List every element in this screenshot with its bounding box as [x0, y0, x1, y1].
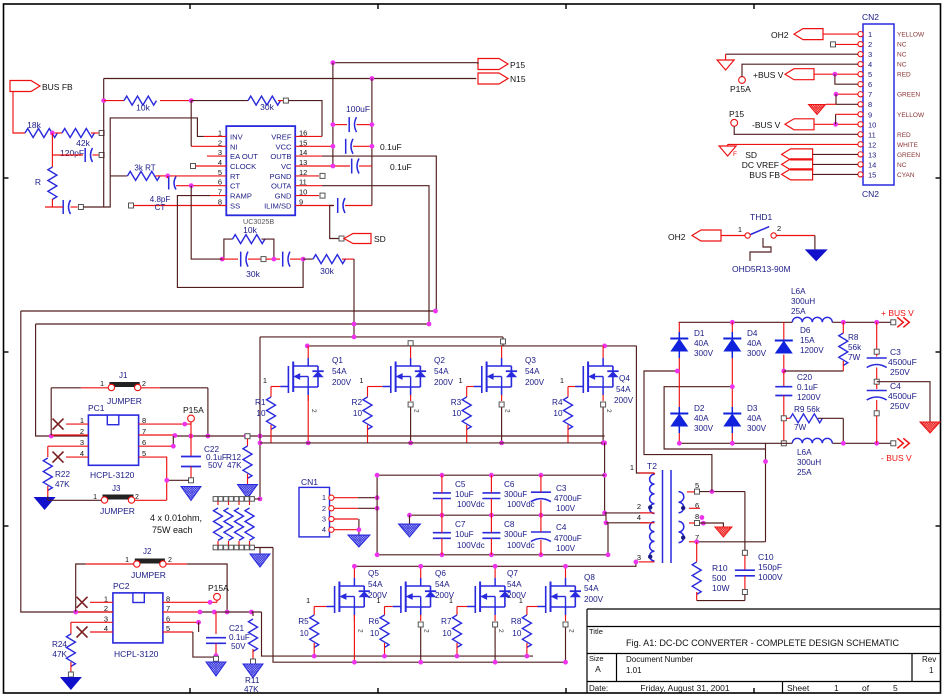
svg-text:54A: 54A — [525, 367, 540, 376]
svg-text:54A: 54A — [616, 385, 631, 394]
svg-text:47K: 47K — [55, 480, 70, 489]
svg-text:Fig. A1: DC-DC CONVERTER - COM: Fig. A1: DC-DC CONVERTER - COMPLETE DESI… — [626, 638, 899, 648]
svg-text:+ BUS V: + BUS V — [881, 308, 914, 318]
svg-text:R10: R10 — [712, 563, 728, 573]
svg-text:D2: D2 — [694, 404, 705, 413]
svg-text:CN2: CN2 — [862, 12, 879, 22]
svg-text:C8: C8 — [504, 520, 515, 529]
svg-text:OHD5R13-90M: OHD5R13-90M — [732, 264, 791, 274]
svg-text:2: 2 — [142, 381, 146, 388]
svg-text:1: 1 — [125, 557, 129, 564]
svg-text:10uF: 10uF — [455, 530, 474, 539]
svg-text:Q4: Q4 — [619, 374, 630, 383]
svg-text:2: 2 — [310, 409, 317, 413]
svg-text:NC: NC — [897, 42, 907, 49]
svg-text:300V: 300V — [747, 349, 767, 358]
svg-text:42k: 42k — [76, 138, 90, 148]
svg-text:2: 2 — [413, 409, 420, 413]
svg-text:R8: R8 — [511, 617, 522, 626]
svg-text:12: 12 — [868, 140, 876, 149]
svg-text:3: 3 — [322, 515, 326, 524]
svg-text:1: 1 — [868, 30, 872, 39]
svg-text:D3: D3 — [747, 404, 758, 413]
svg-text:Q2: Q2 — [434, 356, 445, 365]
svg-text:4700uF: 4700uF — [554, 534, 582, 543]
svg-text:150pF: 150pF — [758, 562, 782, 572]
svg-text:F: F — [733, 151, 737, 158]
svg-text:1: 1 — [322, 493, 326, 502]
svg-text:54A: 54A — [434, 367, 449, 376]
svg-text:P15A: P15A — [183, 405, 204, 415]
svg-text:SD: SD — [374, 234, 386, 244]
svg-text:200V: 200V — [614, 396, 634, 405]
svg-text:0.1uF: 0.1uF — [380, 142, 402, 152]
svg-text:1: 1 — [100, 381, 104, 388]
svg-text:2: 2 — [777, 224, 781, 233]
svg-text:T2: T2 — [647, 461, 657, 471]
svg-text:10W: 10W — [712, 583, 729, 593]
svg-text:R9 56k: R9 56k — [794, 405, 821, 414]
svg-text:R22: R22 — [55, 470, 70, 479]
svg-text:56k: 56k — [848, 343, 862, 352]
svg-text:R8: R8 — [848, 333, 859, 342]
svg-text:Q7: Q7 — [507, 569, 518, 578]
svg-text:HCPL-3120: HCPL-3120 — [90, 470, 135, 480]
svg-text:C21: C21 — [229, 624, 244, 633]
svg-text:Title: Title — [589, 627, 603, 636]
svg-text:YELLOW: YELLOW — [897, 112, 925, 119]
svg-text:300uF: 300uF — [504, 530, 527, 539]
svg-text:0.1uF: 0.1uF — [797, 383, 818, 392]
svg-text:EA OUT: EA OUT — [230, 152, 258, 161]
svg-text:100uF: 100uF — [346, 104, 370, 114]
svg-text:2: 2 — [504, 409, 511, 413]
svg-text:CN1: CN1 — [301, 477, 318, 487]
svg-text:10: 10 — [256, 409, 266, 418]
svg-text:40A: 40A — [694, 339, 709, 348]
svg-text:100Vdc: 100Vdc — [507, 500, 535, 509]
svg-text:DC VREF: DC VREF — [742, 160, 779, 170]
svg-text:1: 1 — [834, 683, 839, 693]
svg-text:2: 2 — [497, 629, 504, 633]
svg-text:1: 1 — [459, 376, 463, 385]
svg-text:- BUS V: - BUS V — [881, 453, 912, 463]
svg-text:250V: 250V — [890, 401, 910, 411]
svg-text:200V: 200V — [434, 378, 454, 387]
svg-text:OH2: OH2 — [771, 30, 789, 40]
svg-text:J1: J1 — [119, 371, 128, 380]
svg-text:10: 10 — [300, 629, 310, 638]
svg-text:7W: 7W — [848, 353, 861, 362]
svg-text:10uF: 10uF — [455, 490, 474, 499]
svg-text:30k: 30k — [320, 266, 334, 276]
svg-text:R24: R24 — [52, 640, 67, 649]
svg-text:OUTA: OUTA — [271, 182, 292, 191]
svg-text:R11: R11 — [245, 676, 260, 685]
svg-text:GND: GND — [275, 192, 292, 201]
svg-text:CYAN: CYAN — [897, 172, 915, 179]
svg-text:JUMPER: JUMPER — [131, 570, 166, 580]
svg-text:Document Number: Document Number — [626, 655, 693, 664]
svg-text:Sheet: Sheet — [787, 683, 810, 693]
svg-text:CT: CT — [230, 182, 240, 191]
svg-text:CT: CT — [155, 203, 166, 212]
svg-text:PC2: PC2 — [113, 581, 130, 591]
svg-text:C4: C4 — [556, 523, 567, 532]
svg-text:300V: 300V — [747, 424, 767, 433]
svg-text:47K: 47K — [52, 650, 67, 659]
svg-text:1: 1 — [560, 376, 564, 385]
svg-text:1.01: 1.01 — [626, 666, 642, 675]
svg-text:Friday, August 31, 2001: Friday, August 31, 2001 — [640, 683, 729, 693]
svg-text:40A: 40A — [747, 339, 762, 348]
svg-text:54A: 54A — [332, 367, 347, 376]
svg-text:1000V: 1000V — [758, 572, 783, 582]
svg-text:25A: 25A — [791, 307, 806, 316]
svg-text:9: 9 — [868, 110, 872, 119]
svg-text:40A: 40A — [694, 414, 709, 423]
svg-text:C6: C6 — [504, 480, 515, 489]
svg-text:C3: C3 — [890, 347, 901, 357]
svg-text:300uF: 300uF — [504, 490, 527, 499]
svg-text:C7: C7 — [455, 520, 466, 529]
svg-text:RED: RED — [897, 132, 911, 139]
svg-text:RAMP: RAMP — [230, 192, 252, 201]
svg-text:4500uF: 4500uF — [888, 391, 917, 401]
svg-text:10: 10 — [353, 409, 363, 418]
svg-text:4: 4 — [637, 513, 641, 522]
svg-text:1: 1 — [263, 376, 267, 385]
svg-text:6: 6 — [868, 80, 872, 89]
svg-text:GREEN: GREEN — [897, 152, 920, 159]
svg-text:C4: C4 — [890, 381, 901, 391]
svg-text:0.1uF: 0.1uF — [229, 633, 250, 642]
svg-text:10: 10 — [452, 409, 462, 418]
svg-text:L6A: L6A — [797, 448, 812, 457]
svg-text:SS: SS — [230, 202, 240, 211]
svg-text:4: 4 — [322, 525, 326, 534]
svg-text:30k: 30k — [246, 269, 260, 279]
svg-text:Q3: Q3 — [525, 356, 536, 365]
svg-text:5: 5 — [893, 683, 898, 693]
svg-text:15: 15 — [868, 170, 876, 179]
svg-text:Q6: Q6 — [435, 569, 446, 578]
svg-text:R6: R6 — [369, 617, 380, 626]
svg-text:200V: 200V — [525, 378, 545, 387]
svg-text:5: 5 — [868, 70, 872, 79]
svg-text:JUMPER: JUMPER — [107, 396, 142, 406]
svg-text:C10: C10 — [758, 552, 774, 562]
svg-text:of: of — [862, 683, 870, 693]
svg-text:R2: R2 — [352, 398, 363, 407]
svg-text:4500uF: 4500uF — [888, 357, 917, 367]
svg-text:2: 2 — [568, 629, 575, 633]
svg-text:3k RT: 3k RT — [134, 164, 155, 173]
svg-text:NC: NC — [897, 52, 907, 59]
svg-text:1: 1 — [359, 376, 363, 385]
svg-text:13: 13 — [868, 150, 876, 159]
svg-text:ILIM/SD: ILIM/SD — [264, 202, 292, 211]
svg-text:8: 8 — [868, 100, 872, 109]
svg-text:75W each: 75W each — [152, 525, 193, 535]
svg-text:Q8: Q8 — [584, 573, 595, 582]
svg-text:GREEN: GREEN — [897, 92, 920, 99]
svg-text:R5: R5 — [298, 617, 309, 626]
svg-text:300V: 300V — [694, 349, 714, 358]
svg-text:100Vdc: 100Vdc — [457, 541, 485, 550]
svg-text:NC: NC — [897, 62, 907, 69]
svg-text:100V: 100V — [556, 544, 576, 553]
svg-text:8: 8 — [695, 512, 699, 521]
svg-text:Q1: Q1 — [332, 356, 343, 365]
svg-text:J2: J2 — [143, 547, 152, 556]
svg-text:7: 7 — [868, 90, 872, 99]
svg-text:+BUS V: +BUS V — [753, 70, 784, 80]
svg-text:OH2: OH2 — [668, 232, 686, 242]
svg-text:BUS FB: BUS FB — [42, 82, 73, 92]
svg-text:C3: C3 — [556, 484, 567, 493]
svg-text:2: 2 — [168, 557, 172, 564]
svg-text:P15A: P15A — [208, 583, 229, 593]
svg-text:100Vdc: 100Vdc — [507, 541, 535, 550]
svg-text:1: 1 — [929, 666, 934, 675]
svg-text:R1: R1 — [255, 398, 266, 407]
svg-text:300uH: 300uH — [791, 297, 815, 306]
svg-text:18k: 18k — [27, 120, 41, 130]
svg-text:VC: VC — [281, 162, 292, 171]
svg-text:INV: INV — [230, 132, 244, 141]
svg-text:PGND: PGND — [270, 172, 292, 181]
svg-text:250V: 250V — [890, 367, 910, 377]
svg-text:300V: 300V — [694, 424, 714, 433]
svg-text:10k: 10k — [243, 225, 257, 235]
svg-text:C20: C20 — [797, 373, 812, 382]
svg-text:1: 1 — [630, 463, 634, 472]
svg-text:D4: D4 — [747, 329, 758, 338]
svg-text:R3: R3 — [451, 398, 462, 407]
svg-text:54A: 54A — [507, 580, 522, 589]
svg-text:54A: 54A — [584, 584, 599, 593]
svg-text:YELLOW: YELLOW — [897, 32, 925, 39]
svg-text:15A: 15A — [800, 336, 815, 345]
svg-text:Date:: Date: — [589, 684, 608, 693]
svg-text:3: 3 — [868, 50, 872, 59]
svg-text:1: 1 — [738, 225, 742, 234]
svg-text:L6A: L6A — [791, 287, 806, 296]
svg-text:200V: 200V — [584, 595, 604, 604]
svg-text:CN2: CN2 — [862, 189, 879, 199]
svg-text:10: 10 — [370, 629, 380, 638]
svg-text:100V: 100V — [556, 504, 576, 513]
svg-text:47K: 47K — [227, 461, 242, 470]
svg-text:PC1: PC1 — [88, 403, 105, 413]
svg-text:THD1: THD1 — [750, 212, 772, 222]
svg-text:4 x 0.01ohm,: 4 x 0.01ohm, — [150, 513, 202, 523]
svg-text:11: 11 — [868, 130, 876, 139]
svg-text:1: 1 — [306, 596, 310, 605]
svg-text:Rev: Rev — [922, 655, 936, 664]
svg-text:200V: 200V — [507, 591, 527, 600]
svg-text:2: 2 — [868, 40, 872, 49]
svg-text:JUMPER: JUMPER — [100, 506, 135, 516]
svg-text:WHITE: WHITE — [897, 142, 919, 149]
svg-text:D6: D6 — [800, 326, 811, 335]
svg-text:R: R — [35, 177, 41, 187]
svg-text:VCC: VCC — [275, 142, 292, 151]
svg-text:P15A: P15A — [730, 84, 751, 94]
svg-text:2: 2 — [423, 629, 430, 633]
svg-text:3: 3 — [637, 553, 641, 562]
svg-text:NC: NC — [897, 162, 907, 169]
svg-text:7W: 7W — [794, 423, 807, 432]
svg-text:10: 10 — [512, 629, 522, 638]
svg-text:40A: 40A — [747, 414, 762, 423]
svg-text:4: 4 — [868, 60, 872, 69]
svg-text:HCPL-3120: HCPL-3120 — [114, 649, 159, 659]
svg-text:Q5: Q5 — [368, 569, 379, 578]
svg-text:0.1uF: 0.1uF — [390, 162, 412, 172]
svg-text:200V: 200V — [368, 591, 388, 600]
svg-text:R7: R7 — [441, 617, 452, 626]
svg-text:BUS FB: BUS FB — [749, 170, 780, 180]
svg-text:2: 2 — [637, 502, 641, 511]
svg-text:50V: 50V — [208, 461, 223, 470]
svg-text:500: 500 — [712, 573, 726, 583]
svg-text:P15: P15 — [510, 60, 525, 70]
svg-text:P15: P15 — [729, 109, 744, 119]
svg-text:54A: 54A — [368, 580, 383, 589]
svg-text:10: 10 — [868, 120, 876, 129]
svg-text:1200V: 1200V — [800, 346, 824, 355]
svg-text:54A: 54A — [435, 580, 450, 589]
svg-text:30k: 30k — [260, 102, 274, 112]
svg-text:200V: 200V — [435, 591, 455, 600]
svg-text:N15: N15 — [510, 74, 526, 84]
svg-text:R4: R4 — [552, 398, 563, 407]
svg-text:SD: SD — [745, 150, 757, 160]
svg-text:4700uF: 4700uF — [554, 494, 582, 503]
svg-text:Size: Size — [589, 654, 604, 663]
svg-text:47K: 47K — [244, 685, 259, 694]
svg-text:OUTB: OUTB — [270, 152, 291, 161]
svg-text:RED: RED — [897, 72, 911, 79]
svg-text:C5: C5 — [455, 480, 466, 489]
svg-text:-BUS V: -BUS V — [752, 120, 781, 130]
svg-text:100Vdc: 100Vdc — [457, 500, 485, 509]
svg-text:10k: 10k — [136, 103, 150, 113]
svg-text:VREF: VREF — [271, 132, 292, 141]
svg-text:1200V: 1200V — [797, 393, 821, 402]
svg-text:J3: J3 — [112, 484, 121, 493]
svg-text:NI: NI — [230, 142, 238, 151]
svg-text:RT: RT — [230, 172, 240, 181]
svg-text:10: 10 — [553, 409, 563, 418]
svg-text:25A: 25A — [797, 468, 812, 477]
svg-text:2: 2 — [356, 629, 363, 633]
svg-text:50V: 50V — [231, 642, 246, 651]
svg-text:A: A — [595, 664, 601, 674]
svg-text:300uH: 300uH — [797, 458, 821, 467]
svg-text:200V: 200V — [332, 378, 352, 387]
svg-text:10: 10 — [442, 629, 452, 638]
svg-text:14: 14 — [868, 160, 876, 169]
svg-text:120pF: 120pF — [60, 148, 84, 158]
svg-text:D1: D1 — [694, 329, 705, 338]
svg-text:2: 2 — [322, 504, 326, 513]
svg-text:2: 2 — [605, 409, 612, 413]
svg-text:CLOCK: CLOCK — [230, 162, 256, 171]
